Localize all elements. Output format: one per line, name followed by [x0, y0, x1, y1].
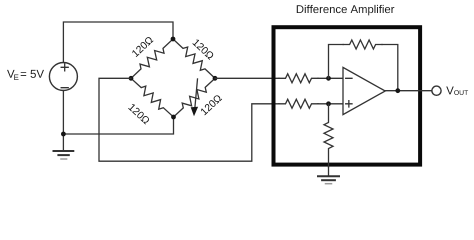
node bridge top [171, 37, 176, 42]
wire upper input node to op-amp inverting pin [318, 77, 343, 79]
node bridge left [129, 76, 134, 81]
resistor amp upper input [279, 74, 318, 83]
arrow of variable resistor [191, 79, 198, 116]
wire feedback loop [329, 45, 398, 91]
node non-inverting input [326, 101, 331, 106]
output terminal [432, 86, 441, 95]
label 120ohm top-left [131, 36, 153, 57]
label 120ohm bottom-right [200, 94, 222, 115]
resistor 120ohm bridge top-right [173, 39, 215, 78]
resistor amp lower input [279, 99, 318, 108]
wire op-amp output [385, 90, 432, 92]
ground (left, under source) [54, 151, 74, 159]
node inverting input [326, 76, 331, 81]
resistor feedback [343, 40, 382, 49]
node bridge bottom [171, 115, 176, 120]
wire bridge left node to amp lower input [99, 78, 279, 161]
wire top rail from source to bridge top node [63, 22, 173, 63]
node output junction [395, 88, 400, 93]
wire bridge right node to amp upper input [215, 77, 279, 79]
label 120ohm top-right [192, 38, 214, 59]
resistor to ground [324, 104, 333, 167]
wire source bottom to ground [62, 91, 64, 152]
wire ground node to bridge bottom node [63, 117, 173, 134]
label 120ohm bottom-left [128, 103, 150, 124]
node bridge right [213, 76, 218, 81]
voltage source VE [49, 63, 77, 91]
resistor 120ohm bridge bottom-right (strain gauge, variable) [174, 78, 216, 117]
difference amplifier box [274, 27, 421, 164]
resistor 120ohm bridge bottom-left [131, 78, 174, 117]
ground (inside box bottom) [318, 176, 339, 183]
label VOUT [446, 87, 468, 96]
label VE = 5V [7, 70, 44, 80]
junction node at source ground [61, 132, 66, 137]
op-amp U1 [343, 67, 385, 114]
resistor 120ohm bridge top-left [131, 39, 173, 78]
title Difference Amplifier [297, 5, 395, 16]
wire resistor bottom to ground [328, 167, 330, 176]
wire lower input node to op-amp non-inverting pin [318, 103, 343, 105]
